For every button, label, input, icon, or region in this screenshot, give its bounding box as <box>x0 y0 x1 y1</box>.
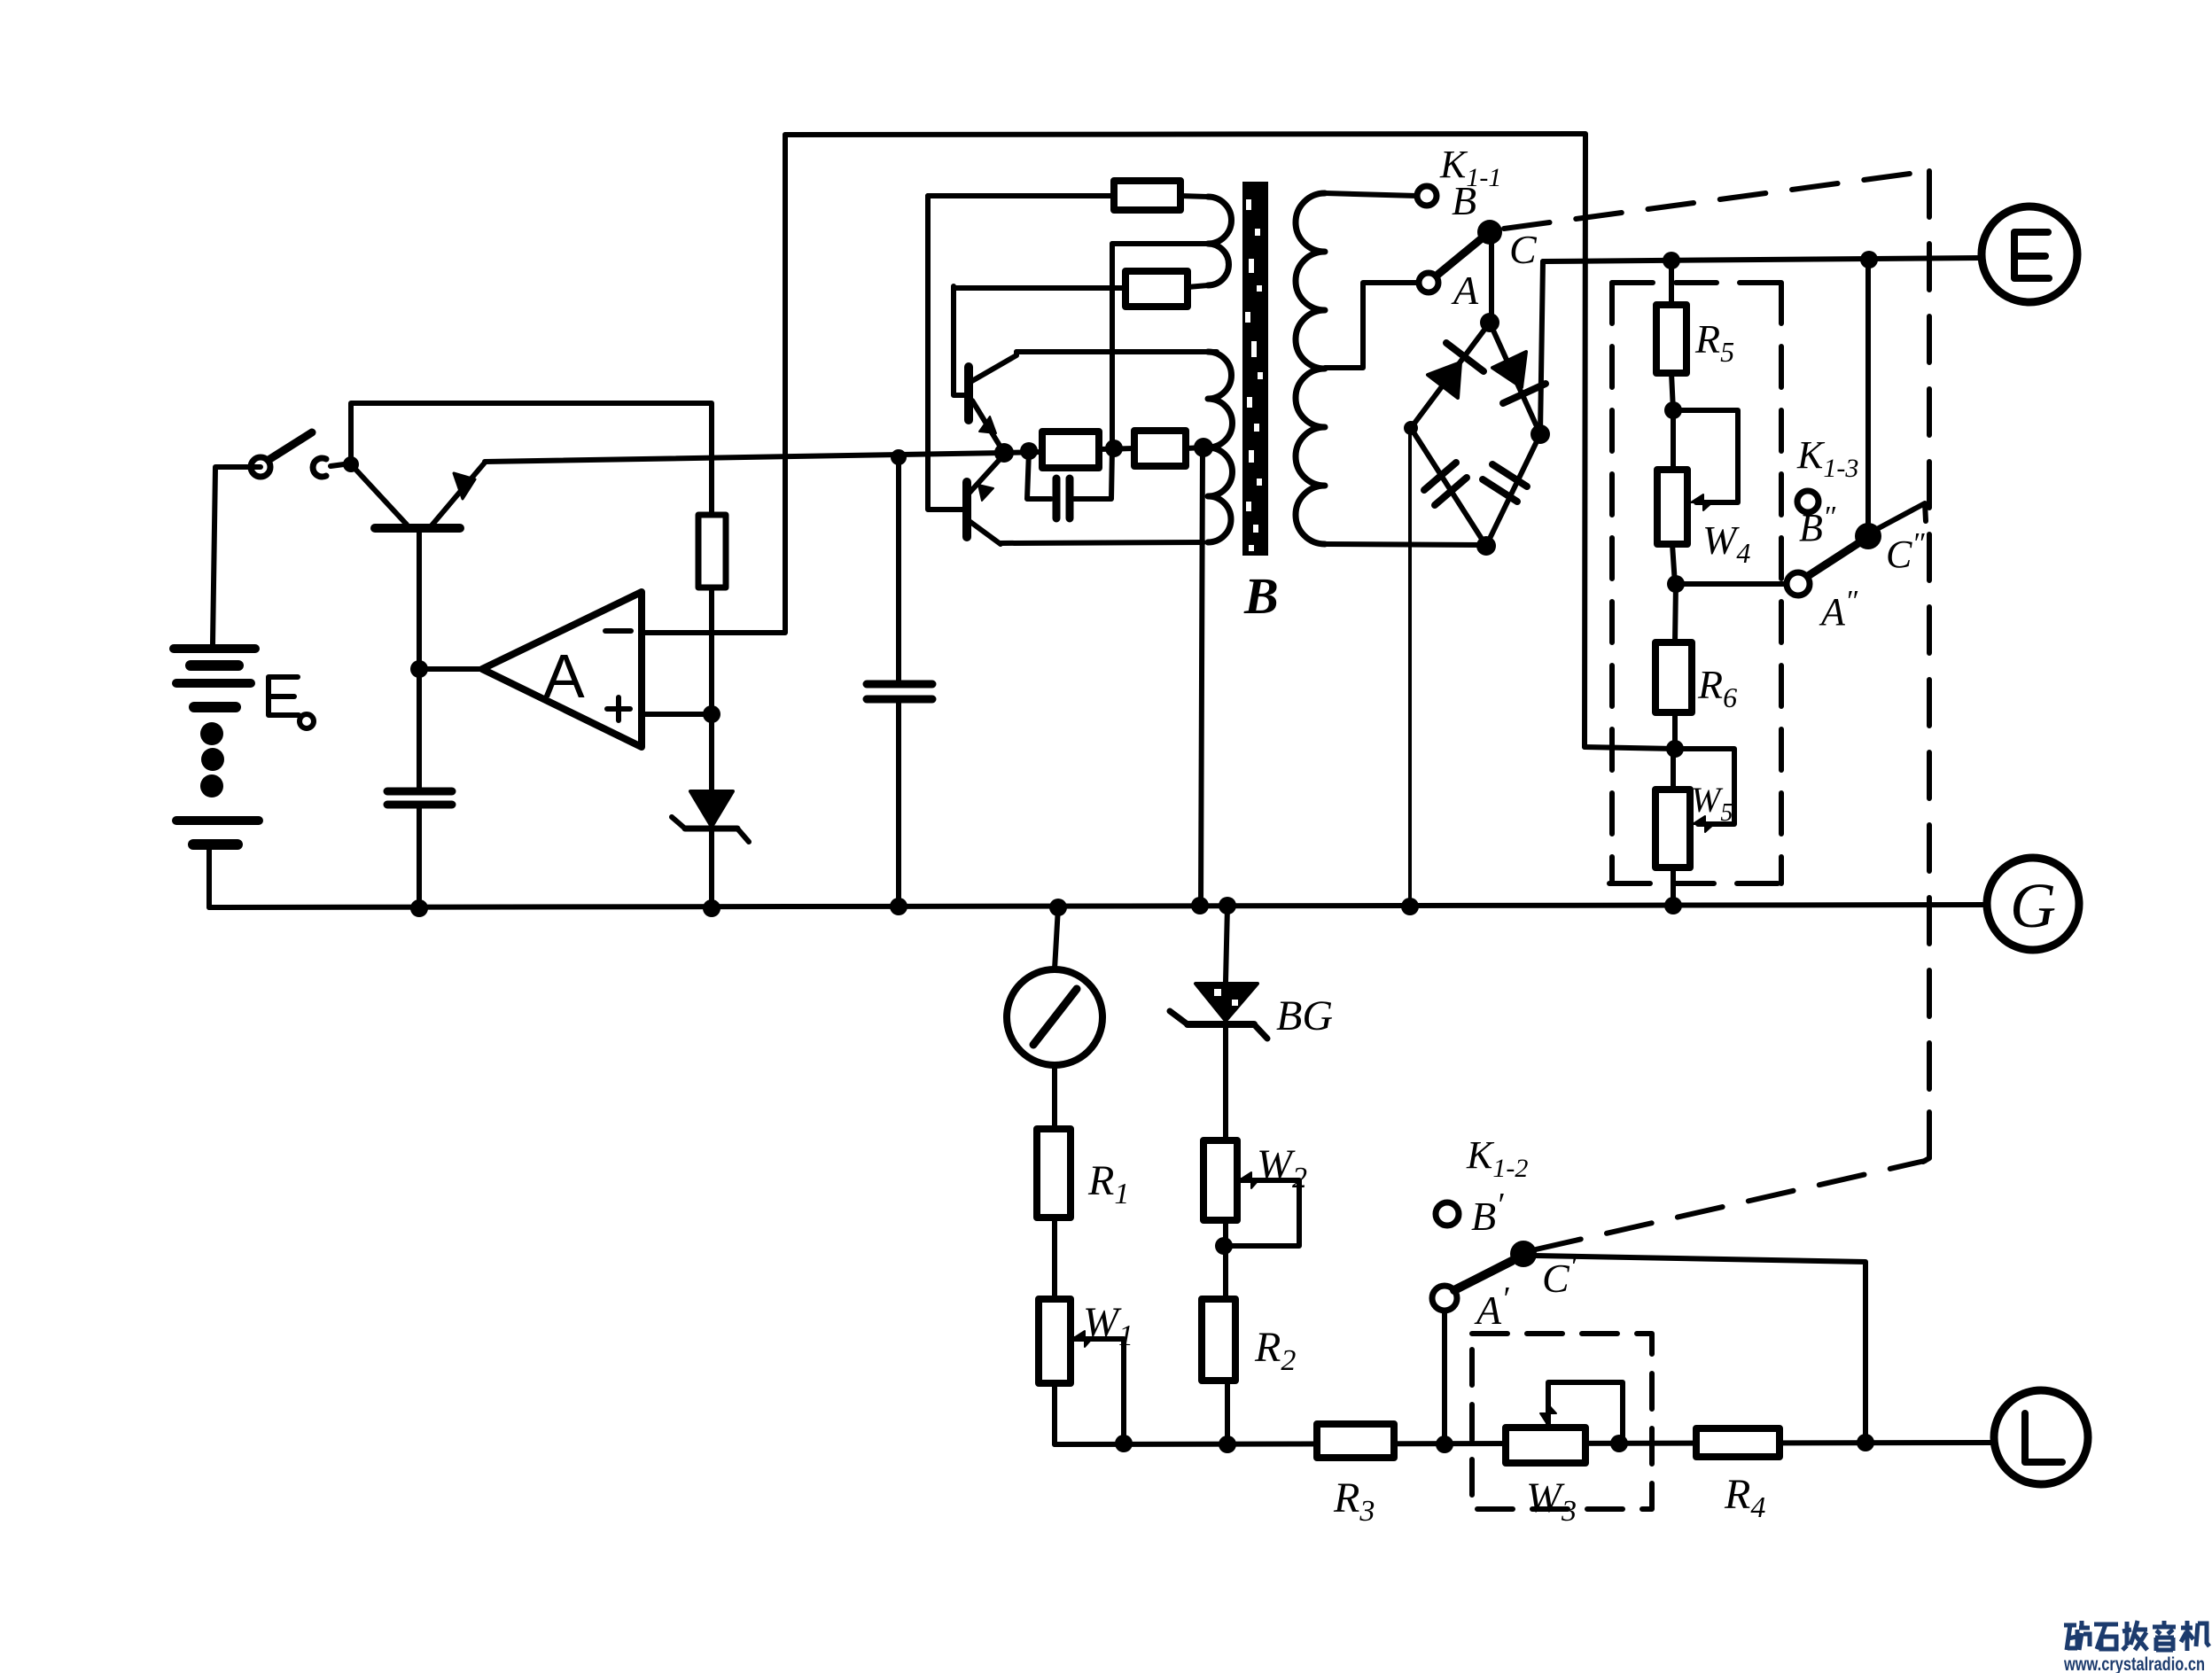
svg-text:BG: BG <box>1276 992 1333 1039</box>
svg-text:B: B <box>1452 178 1476 223</box>
svg-text:C: C <box>1509 227 1538 272</box>
svg-text:A: A <box>543 642 585 711</box>
svg-text:www.crystalradio.cn: www.crystalradio.cn <box>2063 1654 2205 1673</box>
svg-text:A: A <box>1451 268 1479 313</box>
svg-text:G: G <box>2010 870 2056 941</box>
svg-text:B: B <box>1243 567 1279 625</box>
